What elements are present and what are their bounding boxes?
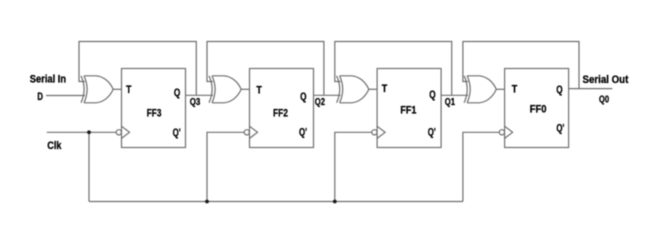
- flip-flop FF2: [250, 69, 314, 148]
- svg-text:Q': Q': [299, 127, 307, 139]
- wire: feedback rail over FF3 (Q3 to G3 top input): [79, 42, 196, 96]
- wire: G0 output to FF0 T input: [496, 88, 504, 90]
- junction dot on bottom rail (FF1 riser): [333, 200, 337, 204]
- svg-text:Q: Q: [174, 87, 181, 99]
- junction dot on bottom rail (FF2 riser): [205, 200, 209, 204]
- svg-text:Q3: Q3: [190, 97, 201, 108]
- wire: clock drop from Clk line to bottom rail: [88, 132, 90, 201]
- wire: Clk input to FF3 clock: [47, 131, 116, 133]
- clock bubble FF0: [499, 130, 504, 135]
- svg-text:FF3: FF3: [147, 107, 162, 119]
- wire: G2 output to FF2 T input: [241, 88, 249, 90]
- xor gate G1 (input of FF1): [337, 76, 369, 103]
- svg-text:Q': Q': [173, 127, 181, 139]
- svg-text:T: T: [126, 84, 132, 96]
- flip-flop FF3: [122, 69, 186, 148]
- svg-text:T: T: [256, 85, 262, 97]
- wire: Q1 output of FF1 to G0 lower input: [441, 94, 468, 96]
- svg-text:Q: Q: [429, 89, 436, 101]
- clock bubble FF3: [116, 130, 121, 135]
- wire: feedback rail over FF1 (Q1 to G1 top input): [335, 42, 452, 96]
- wire: D input to G3 lower input: [46, 95, 85, 97]
- junction dot on Clk line: [87, 130, 91, 134]
- svg-text:Q2: Q2: [315, 97, 326, 108]
- xor gate G2 (input of FF2): [209, 76, 241, 103]
- svg-text:Q: Q: [300, 91, 307, 103]
- svg-text:Clk: Clk: [47, 140, 62, 152]
- xor gate G0 (input of FF0): [464, 76, 496, 103]
- svg-text:Q': Q': [428, 127, 436, 139]
- svg-text:Q: Q: [556, 84, 563, 96]
- wire: Q0 output of FF0 (Serial Out): [569, 88, 613, 90]
- wire: bottom clock rail: [89, 201, 463, 203]
- svg-text:Q': Q': [556, 122, 564, 134]
- wire: G3 output to FF3 T input: [113, 88, 121, 90]
- clock edge triangle FF1: [377, 126, 385, 138]
- flip-flop FF1: [377, 69, 441, 148]
- svg-text:FF0: FF0: [530, 103, 547, 115]
- clock bubble FF2: [244, 130, 249, 135]
- svg-text:Q0: Q0: [599, 94, 609, 105]
- svg-text:Q1: Q1: [445, 97, 456, 108]
- svg-text:Serial Out: Serial Out: [583, 74, 629, 86]
- clock bubble FF1: [372, 130, 377, 135]
- clock edge triangle FF3: [122, 126, 130, 138]
- wire: clock riser to FF2: [207, 132, 244, 201]
- svg-text:T: T: [382, 83, 388, 95]
- flip-flop FF0: [505, 69, 569, 148]
- clock edge triangle FF0: [505, 126, 513, 138]
- wire: feedback rail over FF0 (Q0 to G0 top input): [463, 42, 579, 89]
- svg-text:FF1: FF1: [400, 104, 416, 116]
- wire: Q3 output of FF3 to G2 lower input: [186, 94, 214, 96]
- wire: G1 output to FF1 T input: [369, 88, 377, 90]
- wire: clock riser to FF0: [463, 132, 499, 201]
- svg-text:D: D: [37, 91, 43, 103]
- svg-text:FF2: FF2: [273, 107, 288, 119]
- xor gate G3 (input of FF3): [81, 76, 113, 103]
- clock edge triangle FF2: [250, 126, 258, 138]
- svg-text:T: T: [512, 83, 518, 95]
- svg-text:Serial In: Serial In: [30, 73, 67, 85]
- wire: feedback rail over FF2 (Q2 to G2 top input): [207, 42, 324, 96]
- wire: Q2 output of FF2 to G1 lower input: [314, 94, 341, 96]
- wire: clock riser to FF1: [335, 132, 372, 201]
